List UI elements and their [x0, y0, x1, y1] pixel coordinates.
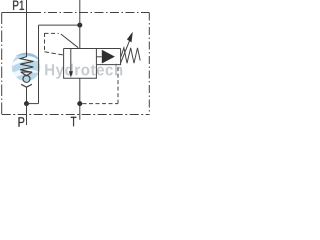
drain pilot line dashed horizontal — [83, 103, 119, 105]
spring of pilot relief RV1 — [121, 48, 140, 63]
wire check valve to node N1 — [26, 87, 28, 103]
seat V below ball CV1 — [21, 84, 32, 87]
wire P1 vertical line — [26, 0, 28, 57]
spring of check valve CV1 — [20, 57, 33, 72]
adjustment arrow shaft RV1 — [120, 41, 129, 64]
pilot dashed line into main valve — [45, 52, 64, 55]
pilot relief valve RV1 inlet stub — [96, 56, 101, 58]
main valve V1 top line — [64, 48, 121, 50]
seat of check valve CV1 — [21, 72, 32, 76]
watermark text Hydrotech — [45, 64, 122, 79]
wire valve outlet to node N3 — [79, 78, 81, 120]
junction dot node N1 — [24, 101, 29, 106]
port label P1 — [13, 1, 24, 10]
port label P — [18, 117, 24, 127]
wire N1 to port P — [26, 104, 28, 125]
drain pilot line dashed vertical — [117, 67, 119, 104]
junction dot node N2 — [77, 23, 82, 28]
pilot line dashed box left edge — [44, 33, 46, 52]
pilot chamfer diagonal — [61, 34, 78, 48]
main valve V1 body rectangle — [64, 49, 97, 79]
adjustment arrowhead RV1 — [127, 32, 133, 43]
pilot relief valve RV1 body — [96, 49, 120, 65]
enclosure border (manifold, chain line) — [2, 13, 150, 115]
wire bypass branch horizontal to node N2 — [39, 24, 80, 26]
main valve V1 flow arrowhead down — [69, 71, 73, 77]
wire top port line — [79, 0, 81, 49]
port label T — [71, 117, 76, 127]
ball of check valve CV1 — [23, 75, 30, 82]
main valve V1 poppet line — [70, 49, 72, 73]
pilot relief valve RV1 flow arrow — [102, 50, 115, 64]
pilot line dashed box top edge — [45, 32, 59, 34]
wire bypass branch vertical — [38, 25, 40, 104]
wire N1 horizontal to bypass branch — [27, 103, 39, 105]
junction dot node N3 — [77, 101, 82, 106]
watermark logo circle — [12, 53, 40, 81]
